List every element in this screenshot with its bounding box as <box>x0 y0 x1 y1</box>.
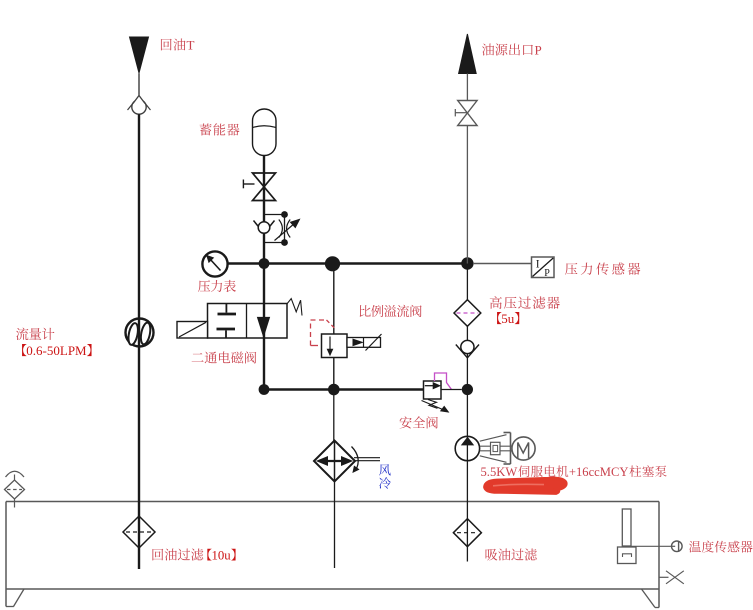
svg-text:5.5KW: 5.5KW <box>481 465 518 479</box>
svg-text:I: I <box>536 259 540 271</box>
svg-text:+16ccMCY: +16ccMCY <box>569 465 629 479</box>
svg-text:0.6-50LPM: 0.6-50LPM <box>26 343 87 358</box>
svg-text:10u: 10u <box>212 549 232 563</box>
svg-text:T: T <box>187 38 195 53</box>
svg-text:5u: 5u <box>501 311 515 326</box>
svg-text:P: P <box>535 43 542 58</box>
svg-text:P: P <box>544 268 550 279</box>
